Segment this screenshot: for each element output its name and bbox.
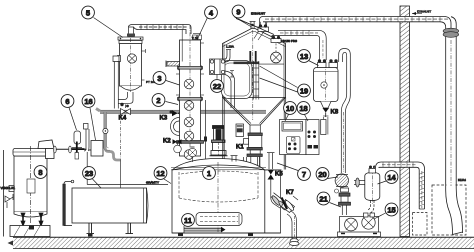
exhaust pipe B: [263, 17, 456, 35]
balloon 18: [297, 102, 310, 121]
balloon 19: [260, 66, 311, 97]
svg-text:15: 15: [387, 205, 395, 214]
condensate vessel 14: [365, 168, 380, 204]
heat exchanger frame 22: [210, 59, 226, 75]
column flange 2: [178, 98, 203, 101]
chamber support legs: [223, 98, 286, 234]
pump K7: [271, 193, 299, 213]
svg-text:19: 19: [300, 86, 308, 95]
balloon 10: [284, 102, 297, 121]
svg-text:GRAVITY: GRAVITY: [146, 181, 159, 185]
balloon 4: [197, 6, 217, 40]
future equipment outline (dashed): [432, 185, 466, 235]
balloon 6: [61, 95, 76, 130]
tank T23 body: [72, 188, 148, 223]
svg-text:1: 1: [207, 169, 211, 178]
control panel 18: [306, 120, 319, 155]
svg-text:13: 13: [300, 52, 308, 61]
balloon 3: [153, 72, 179, 85]
balloon 9: [232, 5, 274, 34]
svg-text:KUA4: KUA4: [458, 178, 466, 182]
tank T23 legs: [87, 223, 134, 237]
balloon 15: [374, 203, 398, 219]
vessel 14 left flanged stub: [354, 178, 365, 187]
vacuum U-bend pipe: [339, 49, 351, 63]
exhaust start elbow and valves (9 group): [254, 17, 269, 41]
balloon 12: [154, 167, 171, 184]
balloon 13: [298, 50, 319, 66]
svg-text:3: 3: [157, 74, 161, 83]
svg-text:9: 9: [236, 7, 240, 16]
tank T8 vessel body: [13, 146, 48, 224]
vessel 13 inlet valve (left): [318, 59, 327, 67]
K5 drop pipe and valve: [267, 153, 275, 199]
svg-text:K1: K1: [236, 145, 244, 151]
tank 1 body: [171, 159, 282, 237]
vessel 5 sight port: [118, 54, 137, 63]
svg-text:K7: K7: [286, 190, 294, 196]
valve K3 (black): [170, 110, 184, 116]
solenoid box on left leg: [236, 124, 244, 137]
vacuum down pipe E: [341, 62, 350, 173]
tank T8 left port: [5, 186, 14, 192]
balloon 14: [378, 171, 398, 184]
vessel 14 top fitting: [369, 166, 376, 174]
svg-text:EXHAUST: EXHAUST: [417, 10, 431, 14]
balloon 2: [152, 94, 178, 107]
drying chamber body: [223, 29, 286, 121]
ground hatch band: [8, 237, 474, 248]
chamber sight port: [271, 40, 282, 63]
svg-text:K4: K4: [119, 116, 127, 122]
balloon 22: [211, 75, 224, 93]
column top instruments: [192, 34, 202, 40]
chamber cone: [223, 98, 286, 126]
tank 1 drain pipe with arrow: [184, 226, 226, 233]
svg-text:EXHAUST: EXHAUST: [251, 12, 265, 16]
balloon 1: [203, 167, 216, 180]
svg-text:2: 2: [156, 96, 160, 105]
burner rail (dark bar): [234, 62, 260, 65]
control panel 10: [280, 120, 307, 155]
valve K4: [120, 103, 130, 115]
svg-text:6: 6: [65, 97, 69, 106]
main suction header (gray pipe): [96, 109, 266, 114]
svg-text:12: 12: [156, 169, 164, 178]
balloon 16: [82, 95, 95, 140]
vessel 13 outlet valve (right): [329, 59, 338, 67]
tank 1 heater bundle: [196, 213, 242, 226]
tank T8 top fitting: [38, 140, 54, 149]
vessel 14 bottom drain to pump: [367, 201, 374, 214]
tank T8 pedestal: [10, 226, 50, 237]
column sight ports: [184, 79, 194, 159]
suction fittings 21: [335, 188, 351, 215]
pipe loop at 22: [225, 45, 235, 109]
vessel 5 neck: [127, 27, 135, 37]
hanger rod with turnbuckle: [204, 100, 207, 160]
svg-text:21: 21: [319, 194, 327, 203]
svg-text:1.10A: 1.10A: [226, 45, 234, 49]
left wall line: [3, 150, 5, 237]
tank 1 top nozzles: [231, 156, 238, 162]
side cabinet strip: [321, 120, 326, 135]
process column body (items 3,2,4): [180, 25, 201, 160]
column side ticks: [176, 43, 204, 95]
tank 1 top gauge: [188, 147, 196, 162]
small gauge under column: [174, 142, 182, 153]
svg-text:18: 18: [299, 104, 307, 113]
vent pipe with cap (item 16 line): [84, 124, 90, 152]
valve on downcomer: [103, 128, 108, 133]
balloon 23: [83, 167, 101, 188]
column flange 1: [178, 67, 203, 70]
vessel 5 right stub: [142, 49, 156, 84]
svg-text:14: 14: [387, 173, 396, 182]
vacuum filter 20: [335, 174, 348, 187]
vessel 5 drain piping: [113, 56, 133, 109]
tank T23 level gauge: [63, 180, 74, 225]
tank T8 legs and anchors: [21, 213, 43, 226]
balloon 20: [316, 168, 338, 181]
svg-text:16: 16: [84, 97, 92, 106]
svg-text:DN150 PN6: DN150 PN6: [281, 39, 297, 43]
vessel 13 cone and K8 valve: [321, 102, 332, 135]
exhaust downpipe (S-curve): [443, 28, 462, 234]
valve K2 (black): [173, 139, 182, 144]
svg-text:8: 8: [38, 168, 42, 177]
chamber access door: [222, 61, 253, 99]
svg-text:10: 10: [286, 104, 294, 113]
K7 discharge pipe: [287, 211, 299, 246]
gravity drain line to tank 1: [87, 152, 168, 185]
apex vent stub: [250, 22, 256, 29]
svg-text:22: 22: [213, 82, 221, 91]
cyclone receiver 13: [314, 64, 339, 106]
svg-text:23: 23: [85, 169, 93, 178]
svg-text:11: 11: [184, 216, 192, 225]
downcomer pipe to tank 23: [104, 112, 121, 188]
K3 recirculation loop: [171, 118, 180, 136]
svg-text:K2: K2: [163, 139, 171, 145]
svg-text:K3: K3: [160, 116, 168, 122]
cross valve assembly: [53, 142, 86, 160]
cyclone feed pipe C: [271, 30, 326, 60]
sight glass cylinder (item 6): [72, 131, 82, 151]
svg-text:5: 5: [86, 8, 90, 17]
rail T-fitting: [230, 71, 234, 78]
pedestal (dashed) under pipe G: [413, 213, 428, 236]
svg-text:K5: K5: [275, 172, 283, 178]
tank 1 jacket dashed: [179, 171, 258, 202]
vacuum pump skid 15: [338, 213, 381, 237]
agitator motor on tank 1: [210, 126, 228, 156]
svg-text:K8: K8: [331, 110, 339, 116]
feed vessel 5 body: [118, 37, 143, 92]
svg-text:7: 7: [302, 170, 306, 179]
ventilation valve: [5, 194, 13, 208]
balloon 5: [82, 6, 123, 37]
atomizer lances: [250, 51, 255, 62]
column flange 3: [177, 141, 204, 144]
transfer pipe A (vessel5 to column): [129, 25, 192, 35]
rotary valve K1: [244, 125, 263, 166]
balloon 7: [277, 163, 310, 180]
building column (hatched): [400, 6, 410, 237]
vent pipe G: [376, 162, 425, 209]
column left inlet bar: [166, 30, 182, 68]
balloon 21: [317, 192, 341, 207]
svg-text:20: 20: [318, 170, 326, 179]
chamber ladder strip: [254, 61, 285, 100]
svg-text:VENTILAT.: VENTILAT.: [1, 186, 16, 190]
exhaust flow arrow + label: [412, 10, 431, 16]
balloon 8: [34, 166, 47, 179]
solenoid box (item 16): [89, 141, 103, 157]
balloon 11: [182, 214, 195, 227]
